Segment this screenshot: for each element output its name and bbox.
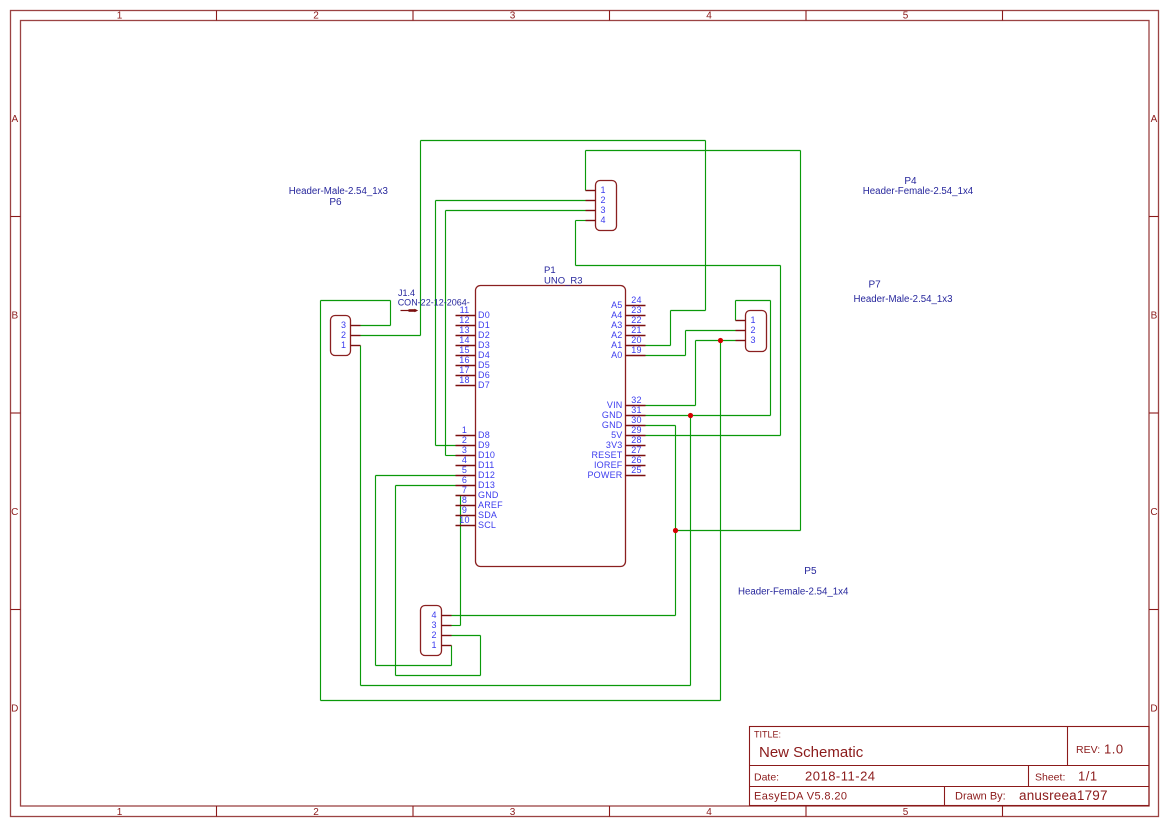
wire net 5V vertical x575	[575, 221, 577, 266]
wire net D12 vertical x375	[375, 476, 377, 666]
component P1 UNO_R3 body	[476, 286, 626, 567]
P1 pin 30 GND	[602, 415, 646, 430]
svg-text:Header-Male-2.54_1x3: Header-Male-2.54_1x3	[853, 294, 952, 305]
wire net VIN horizontal to P7.3	[696, 340, 736, 342]
P1 pin 31 GND	[602, 405, 646, 420]
svg-text:14: 14	[459, 335, 469, 345]
P5 pin 4	[431, 610, 451, 620]
svg-text:D9: D9	[478, 440, 490, 450]
svg-text:1: 1	[117, 10, 123, 21]
wire net GND horizontal y300	[736, 300, 771, 302]
wire net P4.1 long vertical x800	[800, 151, 802, 531]
wire net VIN horizontal to pin 32	[646, 405, 696, 407]
svg-text:3V3: 3V3	[606, 440, 623, 450]
wire net P4.1-GND30 horizontal y150	[586, 150, 801, 152]
wire net D9 stub to pin 2	[436, 445, 456, 447]
svg-text:4: 4	[706, 807, 712, 818]
P4 pin 2	[586, 195, 606, 205]
wire net GND vertical x770	[770, 301, 772, 416]
P1 pin 29 5V	[611, 425, 645, 440]
svg-text:2: 2	[341, 330, 346, 340]
svg-text:31: 31	[631, 405, 641, 415]
svg-text:UNO_R3: UNO_R3	[544, 276, 583, 287]
svg-text:C: C	[11, 507, 18, 518]
wire net 5V stub from P4.4	[576, 220, 586, 222]
P1 pin 14 D3	[456, 335, 490, 350]
P1 pin 20 A1	[611, 335, 645, 350]
svg-text:EasyEDA V5.8.20: EasyEDA V5.8.20	[754, 791, 847, 803]
wire net 5V horizontal y265	[576, 265, 781, 267]
junction dot net VIN/P7.3	[718, 338, 723, 343]
P1 pin 24 A5	[611, 295, 645, 310]
wire net D12 horizontal pin5	[376, 475, 456, 477]
wire net VIN vertical x695	[695, 341, 697, 406]
border row letters left	[11, 114, 18, 715]
wire net D12 vertical to P5.1	[451, 646, 453, 666]
svg-text:3: 3	[510, 10, 516, 21]
P4 pin 4	[586, 215, 606, 225]
component P7 Header-Male-2.54_1x3 body	[746, 311, 767, 352]
svg-text:4: 4	[462, 455, 467, 465]
svg-text:1: 1	[751, 315, 756, 325]
svg-text:24: 24	[631, 295, 641, 305]
wire net A1 right vertical	[705, 141, 707, 311]
P5 pin 3	[431, 620, 451, 630]
svg-text:SDA: SDA	[478, 510, 497, 520]
svg-text:P6: P6	[329, 197, 342, 208]
wire net VIN long horizontal y700	[321, 700, 721, 702]
svg-text:IOREF: IOREF	[594, 460, 623, 470]
svg-text:23: 23	[631, 305, 641, 315]
svg-text:P1: P1	[544, 265, 556, 276]
svg-text:GND: GND	[602, 410, 623, 420]
svg-text:D0: D0	[478, 310, 490, 320]
P1 pin 10 SCL	[456, 515, 497, 530]
wire net A1 left vertical to P6 pin2	[420, 141, 422, 336]
svg-text:5: 5	[462, 465, 467, 475]
svg-text:12: 12	[459, 315, 469, 325]
svg-text:1: 1	[462, 425, 467, 435]
P7 pin 2	[736, 325, 756, 335]
svg-text:SCL: SCL	[478, 520, 496, 530]
component P5 Header-Female-2.54_1x4 body	[421, 606, 442, 656]
wire net A1 horizontal P6.2	[361, 335, 421, 337]
wire net D13 horizontal y675	[396, 675, 481, 677]
P1 pin 15 D4	[456, 345, 490, 360]
wire net A1 top horizontal	[421, 140, 706, 142]
svg-text:5: 5	[903, 807, 909, 818]
P1 pin 6 D13	[456, 475, 496, 490]
svg-text:D4: D4	[478, 350, 490, 360]
wire net A1 vertical x670	[670, 311, 672, 346]
svg-text:D7: D7	[478, 380, 490, 390]
wire net D9 vertical x435	[435, 201, 437, 446]
wire net A1 stub to pin 20	[646, 345, 671, 347]
wire net D13 vertical x395	[395, 486, 397, 676]
svg-text:29: 29	[631, 425, 641, 435]
svg-text:2: 2	[462, 435, 467, 445]
svg-text:B: B	[11, 310, 18, 321]
svg-text:D11: D11	[478, 460, 494, 470]
svg-text:17: 17	[459, 365, 469, 375]
P1 pin 12 D1	[456, 315, 490, 330]
svg-text:4: 4	[601, 215, 606, 225]
wire net GND30 horizontal pin30	[646, 425, 676, 427]
svg-text:1/1: 1/1	[1078, 769, 1098, 784]
svg-text:27: 27	[631, 445, 641, 455]
P1 pin 4 D11	[456, 455, 495, 470]
P1 pin 32 VIN	[607, 395, 646, 410]
wire net D12 horizontal y665	[376, 665, 452, 667]
border column numbers bottom	[117, 807, 909, 818]
P1 pin 13 D2	[456, 325, 490, 340]
wire net VIN long vertical x320	[320, 301, 322, 701]
svg-text:GND: GND	[602, 420, 623, 430]
junction dot net P4.1/GND30	[673, 528, 678, 533]
svg-text:15: 15	[459, 345, 469, 355]
svg-text:1: 1	[117, 807, 123, 818]
P4 pin 3	[586, 205, 606, 215]
P1 pin 11 D0	[456, 305, 490, 320]
svg-text:D12: D12	[478, 470, 495, 480]
svg-text:anusreea1797: anusreea1797	[1019, 788, 1108, 803]
P1 pin 23 A4	[611, 305, 645, 320]
title block frame	[750, 727, 1150, 806]
svg-text:D8: D8	[478, 430, 490, 440]
svg-text:13: 13	[459, 325, 469, 335]
svg-text:3: 3	[462, 445, 467, 455]
svg-text:3: 3	[431, 620, 436, 630]
P1 pin 3 D10	[456, 445, 496, 460]
wire net GND7 vertical x460	[460, 496, 462, 626]
wire net A1 horizontal y310	[671, 310, 706, 312]
svg-text:5V: 5V	[611, 430, 622, 440]
P1 pin 2 D9	[456, 435, 490, 450]
wire net A0 vertical x685	[685, 331, 687, 356]
P1 pin 16 D5	[456, 355, 490, 370]
wire net GND vertical to P7.1	[735, 301, 737, 321]
P1 pin 7 GND	[456, 485, 499, 500]
P5 pin 2	[431, 630, 451, 640]
svg-text:D10: D10	[478, 450, 495, 460]
svg-text:A4: A4	[611, 310, 622, 320]
component P6 Header-Male-2.54_1x3 body	[331, 316, 351, 356]
svg-text:2: 2	[751, 325, 756, 335]
svg-text:C: C	[1150, 507, 1157, 518]
svg-text:1: 1	[601, 185, 606, 195]
P4 pin 1	[586, 185, 606, 195]
svg-text:P5: P5	[804, 566, 817, 577]
P6 pin 2	[341, 330, 361, 340]
svg-text:1.0: 1.0	[1104, 742, 1124, 757]
svg-text:D6: D6	[478, 370, 490, 380]
P1 pin 21 A2	[611, 325, 645, 340]
wire net D13 horizontal pin6	[396, 485, 456, 487]
wire net P4.1 vertical to pin	[585, 151, 587, 191]
wire net 5V vertical x780	[780, 266, 782, 436]
svg-text:Header-Female-2.54_1x4: Header-Female-2.54_1x4	[863, 186, 974, 197]
svg-text:18: 18	[459, 375, 469, 385]
svg-text:9: 9	[462, 505, 467, 515]
svg-text:A0: A0	[611, 350, 622, 360]
svg-text:VIN: VIN	[607, 400, 623, 410]
P1 pin 9 SDA	[456, 505, 498, 520]
wire net A0 horizontal to pin 19	[646, 355, 686, 357]
wire net GND7 stub pin7	[456, 495, 461, 497]
svg-text:D13: D13	[478, 480, 495, 490]
svg-text:2: 2	[601, 195, 606, 205]
svg-text:28: 28	[631, 435, 641, 445]
wire net GND horizontal y685	[361, 685, 691, 687]
svg-text:2: 2	[313, 807, 319, 818]
P1 pin 25 POWER	[587, 465, 645, 480]
svg-text:30: 30	[631, 415, 641, 425]
svg-text:D5: D5	[478, 360, 490, 370]
wire net VIN horizontal y300	[321, 300, 391, 302]
svg-text:2: 2	[313, 10, 319, 21]
wire net D13 horizontal to P5.2	[452, 635, 481, 637]
P1 pin 22 A3	[611, 315, 645, 330]
svg-text:GND: GND	[478, 490, 499, 500]
junction dot net GND pin31	[688, 413, 693, 418]
svg-text:Date:: Date:	[754, 772, 779, 784]
svg-text:7: 7	[462, 485, 467, 495]
connector J1.4 pin	[401, 310, 412, 312]
P1 pin 26 IOREF	[594, 455, 646, 470]
svg-text:21: 21	[631, 325, 641, 335]
wire net D10 stub to pin 3	[446, 455, 456, 457]
svg-text:A: A	[11, 114, 18, 125]
svg-text:5: 5	[903, 10, 909, 21]
P1 pin 27 RESET	[591, 445, 645, 460]
P6 pin 3	[341, 320, 361, 330]
svg-text:Header-Female-2.54_1x4: Header-Female-2.54_1x4	[738, 587, 849, 598]
svg-text:New Schematic: New Schematic	[759, 744, 864, 761]
wire net GND vertical x690	[690, 416, 692, 686]
P5 pin 1	[431, 640, 451, 650]
P1 pin 17 D6	[456, 365, 490, 380]
wire net D13 vertical x480	[480, 636, 482, 676]
svg-text:REV:: REV:	[1076, 744, 1100, 756]
wire net 5V horizontal to pin 29	[646, 435, 781, 437]
svg-text:8: 8	[462, 495, 467, 505]
svg-text:D: D	[1150, 703, 1157, 714]
border row letters right	[1150, 114, 1157, 715]
svg-text:POWER: POWER	[587, 470, 622, 480]
svg-text:3: 3	[341, 320, 346, 330]
wire net GND7 horizontal to P5.3	[452, 625, 461, 627]
svg-text:20: 20	[631, 335, 641, 345]
svg-text:RESET: RESET	[591, 450, 622, 460]
svg-text:A: A	[1151, 114, 1158, 125]
svg-text:D2: D2	[478, 330, 490, 340]
wire net VIN vertical x390	[390, 301, 392, 326]
wire net GND30 vertical x675	[675, 426, 677, 616]
svg-text:4: 4	[706, 10, 712, 21]
svg-text:1: 1	[341, 340, 346, 350]
wire net D10 horizontal y210	[446, 210, 586, 212]
svg-text:3: 3	[751, 335, 756, 345]
svg-text:D1: D1	[478, 320, 490, 330]
svg-text:10: 10	[459, 515, 469, 525]
P1 pin 8 AREF	[456, 495, 504, 510]
border column numbers top	[117, 10, 909, 21]
svg-text:3: 3	[601, 205, 606, 215]
svg-text:26: 26	[631, 455, 641, 465]
P7 pin 3	[736, 335, 756, 345]
svg-text:4: 4	[431, 610, 436, 620]
P6 pin 1	[341, 340, 361, 350]
wire net VIN vertical x720	[720, 341, 722, 701]
svg-text:AREF: AREF	[478, 500, 503, 510]
svg-text:2: 2	[431, 630, 436, 640]
svg-text:25: 25	[631, 465, 641, 475]
P1 pin 19 A0	[611, 345, 645, 360]
svg-text:P7: P7	[868, 279, 881, 290]
svg-text:TITLE:: TITLE:	[754, 730, 781, 740]
P7 pin 1	[736, 315, 756, 325]
wire net GND horizontal pin31	[646, 415, 771, 417]
svg-text:2018-11-24: 2018-11-24	[805, 769, 876, 784]
wire net VIN stub from P6.3	[361, 325, 391, 327]
svg-text:Header-Male-2.54_1x3: Header-Male-2.54_1x3	[289, 186, 388, 197]
component P4 Header-Female-2.54_1x4 body	[596, 181, 617, 231]
P1 pin 1 D8	[456, 425, 490, 440]
wire net GND vertical x360 from P6.1	[360, 346, 362, 686]
wire net D9 horizontal y200	[436, 200, 586, 202]
svg-text:D: D	[11, 703, 18, 714]
P1 pin 28 3V3	[606, 435, 646, 450]
P1 pin 5 D12	[456, 465, 496, 480]
svg-text:A2: A2	[611, 330, 622, 340]
svg-text:22: 22	[631, 315, 641, 325]
svg-text:CON-22-12-2064-: CON-22-12-2064-	[398, 298, 470, 308]
svg-text:19: 19	[631, 345, 641, 355]
P1 pin 18 D7	[456, 375, 490, 390]
svg-text:Drawn By:: Drawn By:	[955, 791, 1006, 803]
svg-text:A1: A1	[611, 340, 622, 350]
svg-text:1: 1	[431, 640, 436, 650]
svg-text:16: 16	[459, 355, 469, 365]
wire net P4.1 horizontal y530	[676, 530, 801, 532]
svg-text:32: 32	[631, 395, 641, 405]
svg-text:A3: A3	[611, 320, 622, 330]
svg-text:Sheet:: Sheet:	[1035, 772, 1065, 784]
svg-text:D3: D3	[478, 340, 490, 350]
svg-text:3: 3	[510, 807, 516, 818]
wire net A0 horizontal to P7.2	[686, 330, 736, 332]
svg-text:B: B	[1151, 310, 1158, 321]
wire net GND30 horizontal to P5.4	[452, 615, 676, 617]
svg-text:A5: A5	[611, 300, 622, 310]
wire net D10 vertical x445	[445, 211, 447, 456]
svg-text:6: 6	[462, 475, 467, 485]
